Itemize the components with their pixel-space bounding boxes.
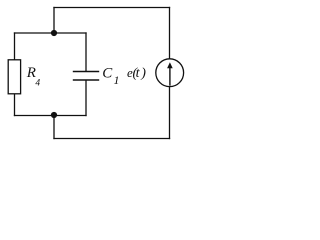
svg-text:4: 4 [35, 78, 40, 88]
svg-text:1: 1 [114, 73, 120, 87]
svg-text:C: C [102, 65, 113, 81]
svg-text:): ) [140, 66, 146, 81]
